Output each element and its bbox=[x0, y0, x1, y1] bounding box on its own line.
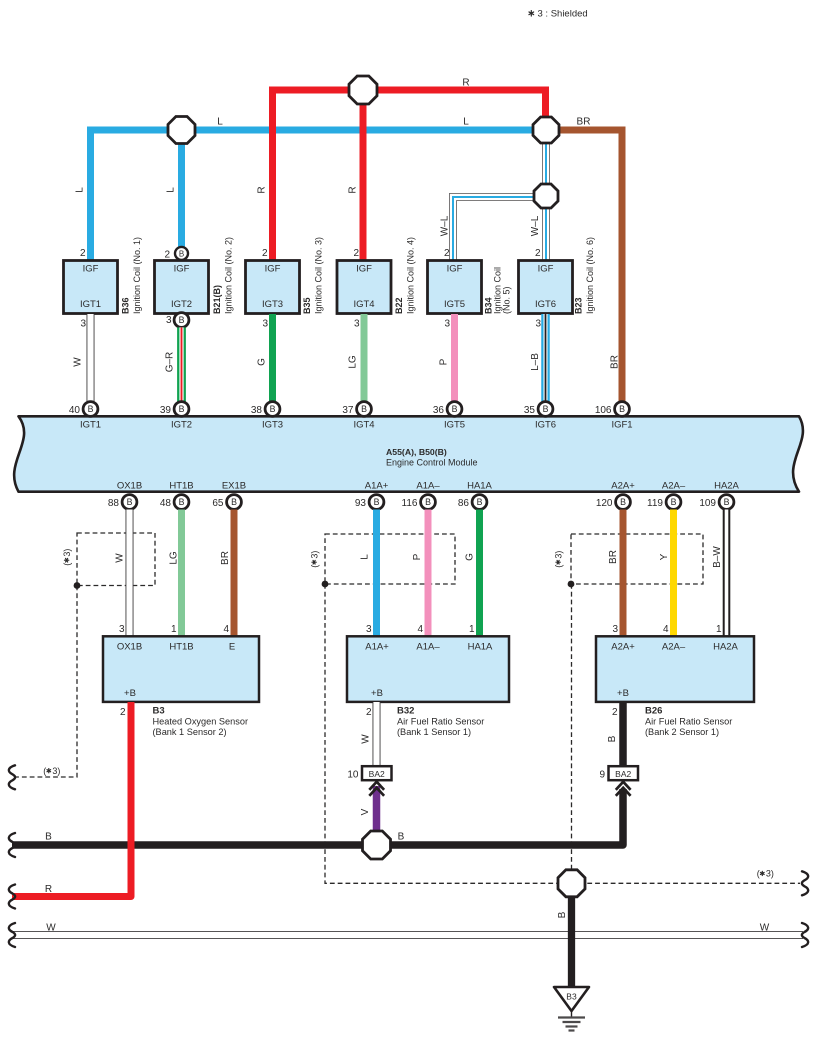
svg-text:65: 65 bbox=[212, 498, 224, 509]
svg-text:W: W bbox=[46, 923, 56, 934]
svg-text:W: W bbox=[72, 357, 83, 367]
svg-text:3): 3) bbox=[553, 551, 563, 559]
svg-text:120: 120 bbox=[596, 498, 613, 509]
svg-text:B: B bbox=[724, 497, 730, 507]
svg-text:B–W: B–W bbox=[712, 546, 723, 568]
svg-text:B3: B3 bbox=[566, 992, 577, 1002]
svg-text:(: ( bbox=[43, 766, 46, 776]
svg-text:G: G bbox=[256, 358, 267, 366]
svg-text:BA2: BA2 bbox=[615, 769, 631, 779]
svg-text:BR: BR bbox=[220, 551, 231, 565]
svg-text:3): 3) bbox=[62, 549, 72, 557]
svg-text:(Bank 2 Sensor 1): (Bank 2 Sensor 1) bbox=[645, 727, 719, 737]
svg-text:A2A+: A2A+ bbox=[611, 481, 635, 492]
svg-text:3): 3) bbox=[52, 766, 60, 776]
svg-text:B: B bbox=[398, 832, 405, 843]
svg-text:3: 3 bbox=[166, 315, 172, 326]
svg-text:P: P bbox=[438, 358, 449, 365]
svg-text:IGT3: IGT3 bbox=[262, 299, 283, 310]
svg-text:R: R bbox=[45, 884, 52, 895]
svg-text:3: 3 bbox=[612, 624, 618, 635]
svg-text:2: 2 bbox=[262, 248, 268, 259]
svg-text:BR: BR bbox=[577, 117, 591, 128]
svg-text:HT1B: HT1B bbox=[169, 642, 193, 653]
svg-text:(Bank 1 Sensor 1): (Bank 1 Sensor 1) bbox=[397, 727, 471, 737]
svg-text:2: 2 bbox=[80, 248, 86, 259]
svg-text:(: ( bbox=[757, 869, 760, 879]
svg-text:A2A+: A2A+ bbox=[611, 642, 635, 653]
svg-text:B26: B26 bbox=[645, 706, 662, 717]
svg-text:4: 4 bbox=[663, 624, 669, 635]
svg-text:EX1B: EX1B bbox=[222, 481, 246, 492]
svg-text:Ignition Coil (No. 3): Ignition Coil (No. 3) bbox=[313, 237, 323, 314]
svg-text:+B: +B bbox=[617, 688, 629, 699]
svg-text:B32: B32 bbox=[397, 706, 414, 717]
svg-text:3: 3 bbox=[444, 319, 450, 330]
svg-text:G: G bbox=[464, 553, 475, 561]
svg-text:IGT6: IGT6 bbox=[535, 420, 556, 431]
svg-text:IGT4: IGT4 bbox=[353, 299, 374, 310]
svg-text:L: L bbox=[463, 117, 469, 128]
svg-text:LG: LG bbox=[168, 551, 179, 565]
svg-text:A2A–: A2A– bbox=[662, 642, 686, 653]
svg-text:A1A–: A1A– bbox=[416, 481, 440, 492]
svg-text:IGF: IGF bbox=[83, 264, 99, 275]
svg-text:B: B bbox=[270, 404, 276, 414]
svg-text:B: B bbox=[607, 735, 618, 742]
svg-text:Ignition Coil (No. 2): Ignition Coil (No. 2) bbox=[223, 237, 233, 314]
svg-text:R: R bbox=[462, 78, 469, 89]
svg-text:OX1B: OX1B bbox=[117, 481, 142, 492]
svg-text:38: 38 bbox=[251, 405, 263, 416]
svg-text:R: R bbox=[256, 186, 267, 193]
svg-text:B: B bbox=[557, 911, 568, 918]
svg-text:3: 3 bbox=[354, 319, 360, 330]
svg-text:IGT2: IGT2 bbox=[171, 299, 192, 310]
svg-text:2: 2 bbox=[164, 250, 170, 261]
svg-text:W: W bbox=[760, 923, 770, 934]
svg-text:IGT1: IGT1 bbox=[80, 299, 101, 310]
svg-text:R: R bbox=[347, 186, 358, 193]
svg-text:1: 1 bbox=[716, 624, 722, 635]
svg-text:BA2: BA2 bbox=[369, 769, 385, 779]
svg-text:IGT6: IGT6 bbox=[535, 299, 556, 310]
svg-text:IGT5: IGT5 bbox=[444, 299, 465, 310]
svg-text:1: 1 bbox=[469, 624, 475, 635]
svg-text:3: 3 bbox=[535, 319, 541, 330]
svg-text:A1A+: A1A+ bbox=[365, 642, 389, 653]
svg-text:B: B bbox=[179, 497, 185, 507]
svg-text:B: B bbox=[620, 497, 626, 507]
svg-text:3: 3 bbox=[80, 319, 86, 330]
svg-text:A1A–: A1A– bbox=[416, 642, 440, 653]
svg-text:IGF: IGF bbox=[447, 264, 463, 275]
svg-text:Engine Control Module: Engine Control Module bbox=[386, 457, 478, 467]
svg-text:P: P bbox=[412, 553, 423, 560]
svg-text:B: B bbox=[45, 831, 52, 842]
svg-text:L–B: L–B bbox=[530, 353, 541, 371]
svg-text:B22: B22 bbox=[394, 297, 404, 314]
svg-text:+B: +B bbox=[371, 688, 383, 699]
svg-text:A2A–: A2A– bbox=[662, 481, 686, 492]
svg-text:L: L bbox=[165, 187, 176, 193]
svg-text:A55(A), B50(B): A55(A), B50(B) bbox=[386, 447, 447, 457]
svg-text:IGF1: IGF1 bbox=[611, 420, 632, 431]
svg-text:35: 35 bbox=[524, 405, 536, 416]
svg-text:4: 4 bbox=[417, 624, 423, 635]
svg-text:2: 2 bbox=[535, 248, 541, 259]
svg-text:B: B bbox=[231, 497, 237, 507]
svg-text:HA2A: HA2A bbox=[714, 481, 739, 492]
svg-text:86: 86 bbox=[458, 498, 470, 509]
svg-text:B: B bbox=[127, 497, 133, 507]
svg-text:(: ( bbox=[62, 563, 72, 566]
svg-text:IGT4: IGT4 bbox=[353, 420, 374, 431]
svg-text:B: B bbox=[619, 404, 625, 414]
svg-text:B: B bbox=[425, 497, 431, 507]
svg-text:1: 1 bbox=[171, 624, 177, 635]
svg-text:B: B bbox=[179, 404, 185, 414]
svg-text:G–R: G–R bbox=[164, 352, 175, 373]
svg-text:(Bank 1 Sensor 2): (Bank 1 Sensor 2) bbox=[153, 727, 227, 737]
svg-text:W–L: W–L bbox=[439, 215, 450, 236]
svg-text:IGF: IGF bbox=[356, 264, 372, 275]
svg-text:Heated Oxygen Sensor: Heated Oxygen Sensor bbox=[153, 717, 249, 727]
svg-text:39: 39 bbox=[160, 405, 172, 416]
svg-text:B: B bbox=[452, 404, 458, 414]
svg-text:2: 2 bbox=[366, 707, 372, 718]
svg-text:Y: Y bbox=[659, 553, 670, 560]
svg-text:10: 10 bbox=[347, 769, 359, 780]
svg-text:3): 3) bbox=[766, 869, 774, 879]
svg-text:B: B bbox=[179, 250, 184, 259]
svg-text:B: B bbox=[361, 404, 367, 414]
svg-text:IGF: IGF bbox=[265, 264, 281, 275]
svg-text:109: 109 bbox=[699, 498, 716, 509]
svg-text:HT1B: HT1B bbox=[169, 481, 193, 492]
svg-text:116: 116 bbox=[402, 498, 418, 509]
svg-text:(: ( bbox=[309, 565, 319, 568]
svg-text:3: 3 bbox=[366, 624, 372, 635]
svg-text:B: B bbox=[179, 315, 185, 325]
svg-text:93: 93 bbox=[355, 498, 367, 509]
svg-text:HA1A: HA1A bbox=[467, 481, 492, 492]
svg-text:9: 9 bbox=[599, 769, 605, 780]
svg-text:48: 48 bbox=[160, 498, 172, 509]
svg-text:88: 88 bbox=[108, 498, 120, 509]
svg-text:2: 2 bbox=[120, 707, 126, 718]
svg-text:36: 36 bbox=[433, 405, 445, 416]
svg-text:B: B bbox=[88, 404, 94, 414]
svg-text:B3: B3 bbox=[153, 706, 165, 717]
svg-text:B23: B23 bbox=[573, 297, 583, 314]
svg-text:IGF: IGF bbox=[538, 264, 554, 275]
svg-text:L: L bbox=[359, 554, 370, 560]
svg-text:40: 40 bbox=[69, 405, 81, 416]
svg-text:B36: B36 bbox=[120, 297, 130, 314]
svg-text:2: 2 bbox=[612, 707, 618, 718]
svg-text:IGT3: IGT3 bbox=[262, 420, 283, 431]
svg-text:+B: +B bbox=[124, 688, 136, 699]
svg-text:Ignition Coil (No. 4): Ignition Coil (No. 4) bbox=[405, 237, 415, 314]
svg-text:W: W bbox=[360, 734, 371, 744]
svg-text:IGT5: IGT5 bbox=[444, 420, 465, 431]
svg-text:W: W bbox=[114, 553, 125, 563]
svg-text:3 : Shielded: 3 : Shielded bbox=[538, 9, 588, 20]
svg-text:B: B bbox=[477, 497, 483, 507]
svg-text:BR: BR bbox=[608, 550, 619, 564]
svg-text:IGF: IGF bbox=[174, 264, 190, 275]
svg-text:2: 2 bbox=[353, 248, 359, 259]
svg-text:Ignition Coil (No. 1): Ignition Coil (No. 1) bbox=[132, 237, 142, 314]
svg-text:Air Fuel Ratio Sensor: Air Fuel Ratio Sensor bbox=[645, 717, 732, 727]
svg-text:W–L: W–L bbox=[530, 215, 541, 236]
svg-text:4: 4 bbox=[223, 624, 229, 635]
svg-text:E: E bbox=[229, 642, 235, 653]
svg-text:(: ( bbox=[553, 565, 563, 568]
svg-text:IGT1: IGT1 bbox=[80, 420, 101, 431]
svg-text:Ignition Coil (No. 6): Ignition Coil (No. 6) bbox=[585, 237, 595, 314]
svg-text:3): 3) bbox=[309, 551, 319, 559]
svg-text:B: B bbox=[543, 404, 549, 414]
svg-text:BR: BR bbox=[609, 355, 620, 369]
svg-text:IGT2: IGT2 bbox=[171, 420, 192, 431]
svg-text:106: 106 bbox=[595, 405, 612, 416]
svg-text:HA2A: HA2A bbox=[713, 642, 738, 653]
svg-text:B: B bbox=[671, 497, 677, 507]
svg-text:37: 37 bbox=[342, 405, 354, 416]
svg-text:Air Fuel Ratio Sensor: Air Fuel Ratio Sensor bbox=[397, 717, 484, 727]
svg-text:B35: B35 bbox=[302, 297, 312, 314]
svg-text:B: B bbox=[374, 497, 380, 507]
svg-text:119: 119 bbox=[647, 498, 663, 509]
svg-text:(No. 5): (No. 5) bbox=[501, 286, 511, 314]
svg-text:3: 3 bbox=[119, 624, 125, 635]
svg-text:B21(B): B21(B) bbox=[212, 285, 222, 314]
svg-text:V: V bbox=[360, 808, 371, 815]
svg-text:2: 2 bbox=[444, 248, 450, 259]
svg-text:LG: LG bbox=[347, 355, 358, 369]
svg-text:A1A+: A1A+ bbox=[365, 481, 389, 492]
svg-text:L: L bbox=[74, 187, 85, 193]
svg-text:OX1B: OX1B bbox=[117, 642, 142, 653]
svg-text:L: L bbox=[217, 117, 223, 128]
svg-text:HA1A: HA1A bbox=[468, 642, 493, 653]
svg-text:3: 3 bbox=[262, 319, 268, 330]
